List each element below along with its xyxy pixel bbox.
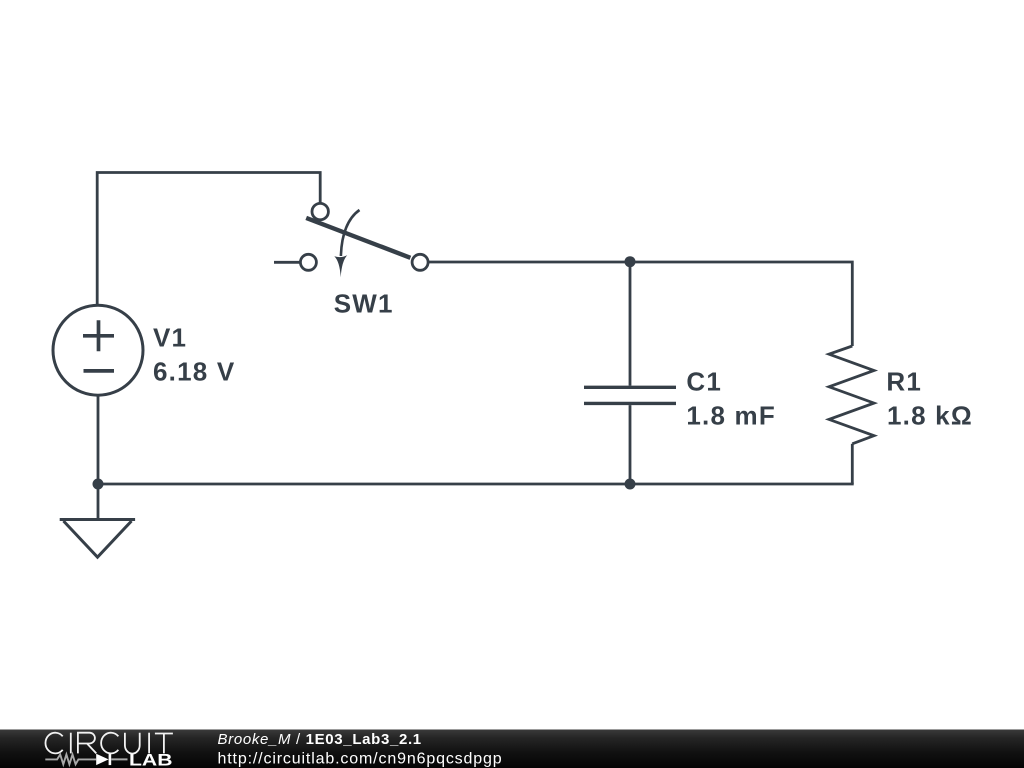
- svg-text:V1: V1: [153, 322, 187, 352]
- wire bottom rail: [98, 483, 854, 486]
- junction node C1 bottom: [625, 479, 636, 490]
- logo CIRCUIT wordmark: [45, 733, 172, 754]
- wire switch output to R1 top corner: [428, 262, 852, 346]
- svg-text:C1: C1: [686, 367, 722, 397]
- wire C1 top branch: [629, 262, 632, 386]
- svg-text:LAB: LAB: [129, 751, 173, 768]
- footer bar: [0, 730, 1024, 768]
- svg-text:R1: R1: [886, 367, 922, 397]
- svg-text:http://circuitlab.com/cn9n6pqc: http://circuitlab.com/cn9n6pqcsdpgp: [218, 751, 503, 768]
- logo resistor squiggle: [45, 755, 96, 765]
- capacitor C1: [584, 387, 676, 403]
- junction node C1 top: [625, 256, 636, 267]
- logo diode: [96, 754, 108, 765]
- wire C1 bottom branch: [629, 405, 632, 484]
- svg-text:1.8 kΩ: 1.8 kΩ: [887, 401, 973, 431]
- svg-text:SW1: SW1: [334, 288, 394, 318]
- junction node V1/ground: [93, 479, 104, 490]
- voltage source V1: [53, 305, 143, 395]
- wire R1 bottom lead: [851, 444, 854, 484]
- wire V1 bottom to ground rail: [97, 395, 100, 484]
- ground: [60, 484, 135, 557]
- svg-text:1.8 mF: 1.8 mF: [686, 401, 776, 431]
- svg-text:6.18 V: 6.18 V: [153, 356, 235, 386]
- resistor R1: [829, 346, 874, 444]
- switch SW1: [300, 203, 428, 277]
- svg-text:Brooke_M / 1E03_Lab3_2.1: Brooke_M / 1E03_Lab3_2.1: [218, 731, 422, 748]
- wire switch left stub: [274, 261, 300, 264]
- wire top rail from V1 to switch: [97, 173, 320, 306]
- logo diode tail wire: [111, 758, 127, 760]
